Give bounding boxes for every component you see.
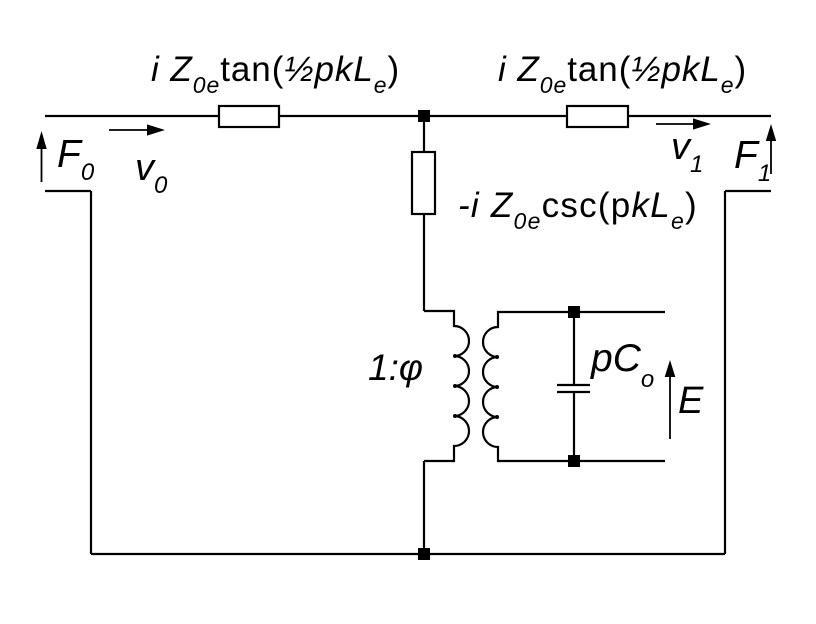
arrow v1 (velocity, rightward) [656,123,695,125]
arrow v0 (velocity, rightward) [109,129,149,131]
arrow E (electric port voltage arrow) [669,375,671,439]
wire: F1 port step (horizontal) [725,190,771,192]
wire: top rail from node A to F1 port [424,115,771,117]
wire: bottom rail [91,553,725,555]
wire: node A down to shunt resistor Z3 [423,116,425,152]
transformer T1 secondary winding (right coil) [483,312,665,461]
resistor Z3 (-i Z0e csc(pkLe), shunt arm) [412,152,435,214]
resistor Z1 (i Z0e tan(1/2 pkLe), left series arm) [219,106,279,127]
node B (capacitor top junction square) [568,306,580,318]
wire: right frame vertical down to bottom rail [724,191,726,554]
node C (capacitor bottom junction square) [568,455,580,467]
node A (top junction square) [418,110,430,122]
capacitor pCo top plate [557,384,590,386]
wire: left frame vertical down to bottom rail [90,191,92,554]
wire: top rail from F0 port to node A [45,115,424,117]
resistor Z2 (i Z0e tan(1/2 pkLe), right series arm) [567,106,628,127]
wire: capacitor bottom lead [573,392,575,461]
node D (bottom junction square) [418,548,430,560]
svg-text:E: E [678,380,704,422]
wire: capacitor top lead [573,312,575,385]
transformer T1 secondary cusp dots [495,355,499,419]
svg-text:1:φ: 1:φ [368,347,423,388]
port F1: force arrow (up) [770,139,772,174]
port F0: force arrow (up) [41,147,43,182]
transformer T1 primary winding (left coil) [424,311,469,461]
wire: F0 port step (horizontal) [45,190,91,192]
wire: transformer primary bottom down to node D [423,461,425,554]
wire: Z3 down to transformer primary [423,214,425,311]
capacitor pCo bottom plate [557,391,590,393]
transformer T1 primary cusp dots [453,354,457,418]
